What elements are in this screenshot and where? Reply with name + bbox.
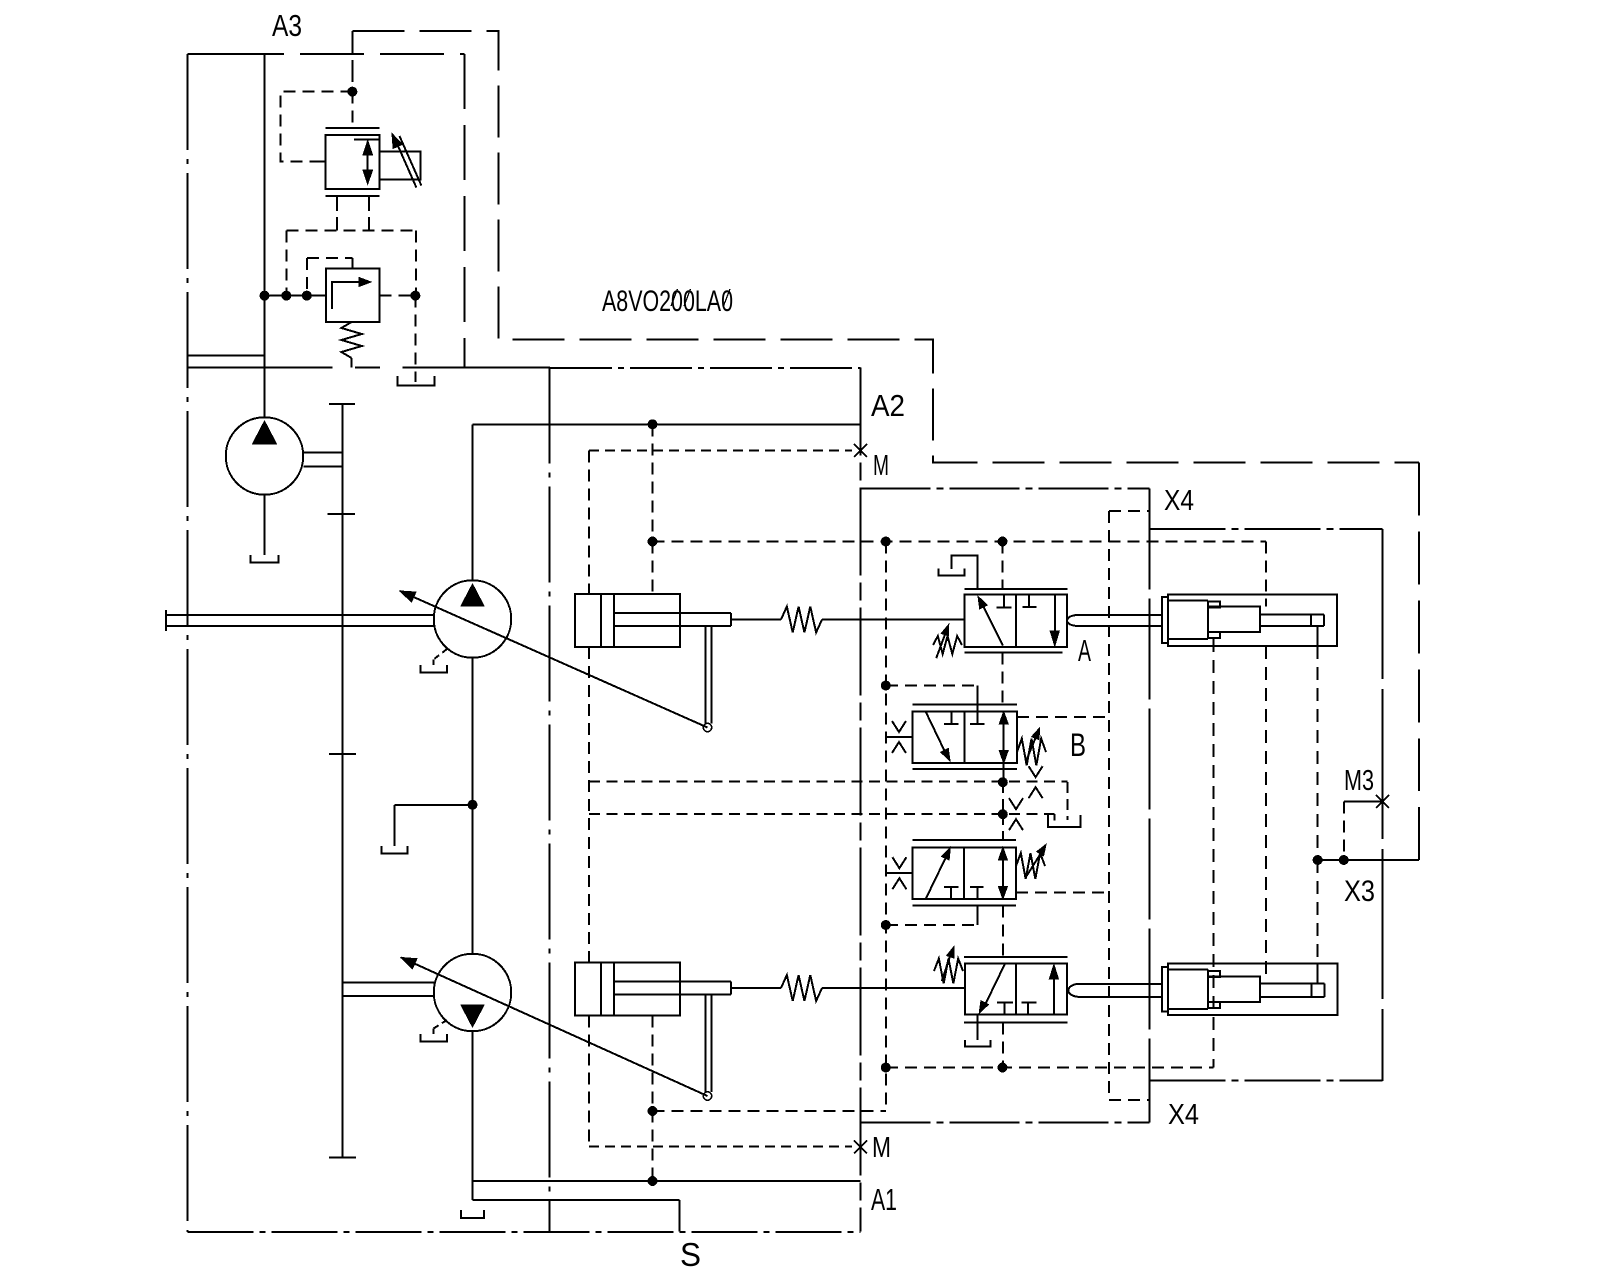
component valve A measuring spring <box>933 636 962 654</box>
node junction case drain tap <box>468 800 478 810</box>
valve A top rail <box>964 588 1067 590</box>
svg-text:M3: M3 <box>1344 765 1374 797</box>
wire valve B left orifice line <box>886 736 912 738</box>
wire pilot drop to valve C (dashed) <box>1002 814 1004 840</box>
wire X4 upper branch line <box>1150 528 1383 530</box>
wire X3 port line <box>1318 859 1419 861</box>
valve C closed port T right <box>977 887 979 899</box>
wire A8VO200 outer boundary right edge (long-dash) <box>1418 463 1420 860</box>
component orifice drain lower <box>1009 798 1023 809</box>
valve V1 bottom rail <box>325 195 379 197</box>
ground tank symbol P2 drain <box>420 1034 447 1041</box>
wire spring to valve A <box>822 619 964 621</box>
valve B body <box>912 712 1017 764</box>
wire feedback rod left line lower <box>704 995 706 1093</box>
actuator CYL4 spacer tab top <box>1208 971 1220 977</box>
valve A flow arrow <box>982 604 1003 646</box>
node junction valve C pilot <box>881 920 891 930</box>
wire pilot tap drop (dashed) <box>652 424 654 541</box>
actuator CYL4 spacer block <box>1208 977 1260 1002</box>
wire CYL3 rod line down <box>1317 626 1319 646</box>
wire valve B to X4 rail (dashed) <box>1017 716 1109 718</box>
node junction A2 line / pilot tap <box>648 419 658 429</box>
wire valve C to X4 rail (dashed) <box>1016 892 1109 894</box>
svg-text:M: M <box>873 450 889 482</box>
node junction riser/V2 line <box>260 291 270 301</box>
wire feedback rod left line <box>704 626 706 724</box>
node junction B outlet <box>998 777 1008 787</box>
wire pilot to servo top (dashed) <box>652 542 654 595</box>
wire P1 outlet riser <box>472 424 474 580</box>
node M3 test point cross <box>1376 795 1389 808</box>
wire pilot drop left (dashed) <box>285 230 287 295</box>
wire input shaft upper line <box>166 614 434 616</box>
actuator CYL3 spacer tab top <box>1208 602 1220 608</box>
wire M3 branch horizontal <box>1344 801 1383 803</box>
valve B closed port T left <box>951 712 953 724</box>
wire pilot between A and B (dashed) <box>1002 653 1004 705</box>
wire charge pump inlet riser <box>264 368 266 418</box>
actuator CYL4 counter cylinder body <box>1168 964 1338 1015</box>
node junction valve B pilot <box>881 681 891 691</box>
actuator CYL1 piston left edge <box>613 594 615 647</box>
valve A push pin <box>1067 615 1078 626</box>
valve D drain line <box>977 1015 979 1040</box>
pump P1 variable pump circle <box>434 580 512 658</box>
wire drain drop lower (dashed) <box>1053 814 1055 821</box>
wire CYL4 rod line up <box>1317 860 1319 964</box>
actuator CYL2 left gland line <box>600 963 602 1016</box>
node junction V2 outlet <box>410 291 420 301</box>
wire valve A vent step <box>952 555 978 588</box>
valve A closed port T left <box>1003 594 1005 607</box>
wire regulator enclosure left edge (dashed) <box>588 450 590 594</box>
wire rod link to spring <box>731 619 781 621</box>
ground tank symbol P1 drain <box>420 665 447 672</box>
wire pilot elbow to junction (dashed) <box>653 1110 886 1112</box>
node junction pilot mid <box>302 291 312 301</box>
component orifice at valve B <box>892 721 906 732</box>
node junction bottom rail a <box>881 1063 891 1073</box>
wire valve B pilot drop <box>976 686 978 712</box>
node junction on A3 pilot line <box>347 87 357 97</box>
wire valve D rod lower <box>1078 996 1162 998</box>
valve C internal double arrow <box>1002 856 1004 890</box>
node junction pilot left <box>281 291 291 301</box>
valve V1 internal double arrow <box>367 148 369 177</box>
valve B flow arrow <box>926 712 947 756</box>
actuator CYL3 spacer block <box>1208 607 1260 632</box>
wire A3 pilot line upper (dashed) <box>351 31 353 92</box>
svg-text:A: A <box>1078 633 1091 668</box>
actuator CYL1 left gland line <box>600 594 602 647</box>
wire valve C left orifice line <box>886 872 912 874</box>
wire pilot drop to valve A (dashed) <box>1002 542 1004 589</box>
wire charge pump port lower <box>303 465 342 467</box>
solenoid U1 proportional solenoid box <box>380 151 421 179</box>
ground tank symbol at suction <box>461 1210 484 1218</box>
valve D closed port T right <box>1027 1003 1029 1015</box>
wire A3 pilot line to valve (dashed) <box>351 92 353 128</box>
wire pump enclosure top edge (solid) <box>188 367 333 369</box>
wire right inner vertical line <box>1149 488 1151 1122</box>
wire boundary right edge of charge-pump enclosure (long-dash) <box>464 54 466 368</box>
wire V2 spring pilot loop (dashed) <box>307 257 353 259</box>
wire valve C pilot line (dashed) <box>886 924 978 926</box>
actuator CYL3 rod <box>1260 614 1324 616</box>
wire valve A rod lower <box>1076 625 1162 627</box>
valve C top rail <box>912 839 1016 841</box>
wire A1 delivery line <box>473 1180 861 1182</box>
node pivot pin lower <box>703 1092 711 1100</box>
ground tank symbol at V2 drain <box>398 376 435 385</box>
svg-text:A1: A1 <box>871 1182 897 1217</box>
valve D top rail <box>964 956 1068 958</box>
actuator CYL4 piston <box>1168 969 1208 971</box>
wire pilot below valve D (dashed) <box>1002 1023 1004 1068</box>
actuator CYL2 servo cylinder body <box>575 963 680 1016</box>
wire suction branch horizontal <box>473 1199 680 1201</box>
valve V2 relief valve body <box>326 269 379 322</box>
valve B top rail <box>912 703 1017 705</box>
valve V1 pressure control valve body <box>325 135 379 189</box>
wire X4 lower branch line <box>1150 1080 1383 1082</box>
svg-text:M: M <box>872 1132 891 1164</box>
wire pressure riser to A3 port <box>264 54 266 368</box>
valve C bottom rail <box>912 905 1016 907</box>
actuator CYL1 piston/rod top <box>614 612 731 614</box>
wire V2 drain drop (dashed) <box>414 296 416 382</box>
wire boundary top edge (long-dash) <box>188 53 285 55</box>
wire A8VO200 outer boundary (long-dash) <box>352 31 1419 463</box>
wire pilot rail X1 (dashed) <box>653 541 1267 543</box>
node junction pilot bottom elbow <box>648 1106 658 1116</box>
valve B bottom rail <box>912 768 1017 770</box>
valve V1 top rail <box>325 127 379 129</box>
wire input shaft end cap <box>165 610 167 631</box>
solenoid U1 proportional arrow <box>395 138 417 188</box>
actuator CYL2 piston left edge <box>613 963 615 1016</box>
actuator CYL1 servo cylinder body <box>575 594 680 647</box>
component feedback spring upper <box>781 607 822 633</box>
wire P2 outlet drop <box>472 1031 474 1200</box>
wire A2 delivery line <box>473 423 861 425</box>
valve D flow arrow <box>984 964 1005 1007</box>
wire valve B pilot line (dashed) <box>886 685 978 687</box>
wire inner boundary vertical (long-dash) <box>549 368 551 1233</box>
wire spring to valve D <box>822 987 965 989</box>
wire CYL3-CYL4 center pilot (dashed) <box>1265 646 1267 977</box>
component valve B spring <box>1017 739 1046 766</box>
component V2 spring <box>341 322 361 358</box>
node junction bottom rail b <box>998 1063 1008 1073</box>
valve A drain arrow down <box>1054 594 1056 632</box>
component valve C spring <box>1016 853 1045 879</box>
wire pilot link B-C (dashed) <box>1002 782 1004 814</box>
actuator CYL3 piston <box>1168 600 1208 602</box>
wire right outer vertical line <box>1382 529 1384 1081</box>
wire pilot loop around pressure valve (dashed) <box>280 92 352 162</box>
wire shaft end tick bottom <box>329 1157 356 1159</box>
wire suction branch drop to S <box>679 1200 681 1232</box>
wire boundary link at left <box>188 355 265 357</box>
actuator CYL3 counter cylinder body <box>1168 595 1337 647</box>
svg-text:X4: X4 <box>1168 1099 1199 1131</box>
wire V2 pilot stub <box>352 258 354 268</box>
wire shaft coupling tick top <box>329 403 355 405</box>
wire control block top chain line <box>550 367 861 369</box>
svg-text:X3: X3 <box>1344 875 1375 908</box>
component orifice at valve C <box>892 857 906 868</box>
wire V2 outlet (dashed) <box>379 295 415 297</box>
wire CYL3 center pilot (dashed) <box>1265 542 1267 607</box>
wire bottom chain boundary <box>188 1231 861 1233</box>
pump P2 variable pump circle <box>434 954 512 1032</box>
wire V1 right pilot stub (dashed) <box>368 196 370 230</box>
component valve D spring <box>934 959 963 984</box>
valve B closed port T right <box>976 712 978 724</box>
wire feedback rod right line <box>710 626 712 724</box>
valve C flow arrow <box>926 854 948 898</box>
actuator CYL3 spacer tab bottom <box>1208 632 1220 638</box>
actuator CYL4 spacer tab bottom <box>1208 1002 1220 1008</box>
wire drain branch upper (dashed) <box>589 781 1067 783</box>
valve A bottom rail <box>964 652 1062 654</box>
node junction pilot rail a <box>881 537 891 547</box>
actuator CYL1 piston/rod bottom <box>614 625 731 627</box>
node junction C inlet <box>998 809 1008 819</box>
wire P2 case drain drop <box>433 1029 435 1035</box>
wire pilot between C and D (dashed) <box>1002 906 1004 964</box>
node pivot pin upper <box>703 723 711 731</box>
actuator CYL3 left flange <box>1162 597 1168 643</box>
svg-text:A8VO200LA0: A8VO200LA0 <box>602 285 733 318</box>
wire P1 case drain diag (dashed) <box>434 649 448 660</box>
wire boundary left edge (long-dash) <box>187 54 189 1232</box>
svg-text:A3: A3 <box>272 8 302 43</box>
valve C body <box>912 847 1016 899</box>
ground tank symbol case drain <box>381 846 407 854</box>
node junction X3 b <box>1339 855 1349 865</box>
wire pilot dashed vertical left rail <box>885 542 887 1112</box>
actuator CYL2 rod end <box>730 982 732 995</box>
node M upper test point cross <box>854 444 867 457</box>
node junction pilot rail b <box>998 537 1008 547</box>
wire valve A rod upper <box>1076 614 1162 616</box>
wire pump2 shaft upper line <box>343 982 434 984</box>
wire X4 upper port notch (dashed) <box>1109 510 1150 512</box>
pump P3 flow triangle <box>253 421 277 444</box>
pump P3 charge pump circle <box>226 417 304 495</box>
wire shaft coupling tick middle <box>328 513 356 515</box>
valve D push pin <box>1068 984 1080 997</box>
wire valve C pilot rise <box>977 906 979 926</box>
wire supply line to V2 <box>265 295 327 297</box>
ground tank symbol valve A vent <box>938 569 964 576</box>
wire valve D rod upper <box>1078 983 1162 985</box>
component feedback spring lower <box>781 975 822 1001</box>
node M lower test point cross <box>854 1141 867 1154</box>
wire P2 case drain diag (dashed) <box>434 1020 448 1029</box>
svg-text:X4: X4 <box>1164 485 1194 517</box>
wire case drain line <box>394 804 472 806</box>
wire pilot cross link (dashed) <box>286 229 416 231</box>
node junction A1 line / pilot tap <box>648 1176 658 1186</box>
wire gauge line M lower (dashed) <box>589 1146 852 1148</box>
ground tank symbol under charge pump <box>251 555 279 563</box>
wire input shaft lower line <box>166 625 434 627</box>
svg-text:B: B <box>1070 727 1086 763</box>
wire pump2 shaft lower line <box>343 995 434 997</box>
wire drain drop right (dashed) <box>1066 782 1068 820</box>
svg-text:A2: A2 <box>871 388 905 423</box>
wire X4 lower port notch (dashed) <box>1109 1099 1150 1101</box>
wire pilot bottom rail (dashed) <box>886 1067 1214 1069</box>
wire feedback rod right line lower <box>710 995 712 1093</box>
wire pilot drop right (dashed) <box>415 230 417 295</box>
valve V2 internal relief arrow <box>332 282 365 309</box>
actuator CYL1 rod end <box>730 613 732 626</box>
wire P1 case drain drop <box>433 660 435 666</box>
wire valve B outlet drop <box>1003 763 1005 782</box>
actuator CYL4 left flange <box>1162 967 1168 1012</box>
valve D bottom rail <box>964 1022 1068 1024</box>
wire shaft coupling tick lower <box>329 753 356 755</box>
wire P1 to P2 line <box>472 658 474 954</box>
ground tank symbol valve D drain <box>965 1040 991 1046</box>
component orifice drain upper <box>1029 766 1043 777</box>
wire charge pump suction drop <box>264 495 266 555</box>
actuator CYL2 piston/rod bottom <box>614 994 731 996</box>
wire M3 branch (dashed) <box>1343 802 1345 861</box>
pump P2 flow triangle <box>461 1005 484 1027</box>
ground tank symbol drain <box>1048 815 1080 827</box>
node junction pilot drop <box>648 537 658 547</box>
wire P1 swashplate lever with arrow <box>400 591 708 728</box>
wire control block chain line upper right <box>861 487 1150 489</box>
actuator CYL4 rod <box>1260 983 1325 985</box>
wire pilot from servo bottom (dashed) <box>652 1016 654 1182</box>
wire P2 swashplate lever with arrow <box>401 958 708 1097</box>
valve C closed port T left <box>950 887 952 899</box>
actuator CYL2 piston/rod top <box>614 981 731 983</box>
pump P1 flow triangle <box>461 584 484 606</box>
svg-text:S: S <box>680 1236 701 1273</box>
valve B internal double arrow <box>1003 720 1005 755</box>
wire CYL3 piston sense (dashed) <box>1213 639 1215 1068</box>
valve A closed port T right <box>1028 594 1030 607</box>
wire V1 left pilot stub (dashed) <box>336 196 338 230</box>
wire charge pump port upper <box>303 452 342 454</box>
wire rod link to spring lower <box>731 987 781 989</box>
valve D drain arrow up <box>1053 977 1055 1015</box>
wire case drain drop <box>393 805 395 846</box>
valve D closed port T left <box>1003 1003 1005 1015</box>
valve A body <box>964 594 1067 647</box>
node junction X3 a <box>1313 855 1323 865</box>
wire drive shaft vertical <box>342 404 344 1158</box>
wire V1 internal tap line <box>354 139 381 141</box>
valve D body <box>965 964 1067 1015</box>
wire pump block right edge (solid) <box>860 368 862 1232</box>
wire control block chain line lower right <box>861 1122 1150 1124</box>
wire drain branch lower (dashed) <box>589 813 1054 815</box>
wire gauge line M upper (dashed) <box>589 449 852 451</box>
